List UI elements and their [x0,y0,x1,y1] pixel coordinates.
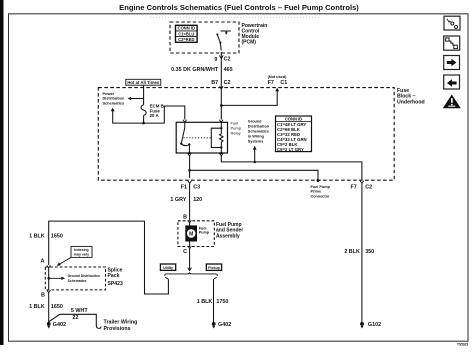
svg-text:Systems: Systems [248,139,264,143]
pickup branch hook [214,277,217,279]
label Fuel Pump Relay [231,120,242,135]
toolbar button: left arrow [444,75,460,89]
svg-text:Underhood: Underhood [397,100,425,106]
Power Distribution Schematics text [103,91,125,106]
label Fuse Block - Underhood [397,88,425,106]
label Fuel Pump Prime Connector [311,185,331,199]
arrow to Power Distribution [131,98,144,100]
svg-text:C3: C3 [193,184,200,190]
svg-text:1650: 1650 [51,304,63,310]
left black sidebar strip [0,0,4,345]
underhood CONN ID table [276,116,312,152]
fuse ECM B 20A [141,105,146,116]
svg-text:C2: C2 [224,57,231,63]
fuel pump motor [185,225,197,241]
wire F7 C2 to G102 [361,183,363,322]
svg-text:Pump: Pump [199,231,210,235]
wire fuse to relay switch [144,106,185,123]
B connector V at splice box bottom [47,290,51,293]
PCM dashed box [170,22,239,53]
splice node [47,277,50,280]
svg-text:may vary: may vary [74,253,89,257]
svg-text:Ground: Ground [248,119,262,123]
B connector V at pump box top [188,220,192,223]
svg-text:20 A: 20 A [150,113,160,118]
svg-text:9: 9 [214,57,217,63]
wire motor to C pin [189,242,191,246]
svg-text:M: M [189,231,193,237]
svg-text:G102: G102 [368,322,381,328]
svg-text:C6=2 LT GRY: C6=2 LT GRY [277,147,304,152]
svg-text:Connector: Connector [311,194,331,198]
PCM label text [242,23,268,46]
svg-text:F7: F7 [351,184,357,190]
svg-text:C2=RED: C2=RED [178,37,194,42]
svg-text:F1: F1 [181,184,187,190]
Utility label box [160,264,175,270]
svg-text:B7: B7 [211,80,218,86]
svg-text:Pack: Pack [108,273,120,279]
PCM output driver symbol [216,31,231,51]
svg-text:350: 350 [365,249,374,255]
svg-text:Provisions: Provisions [104,326,131,332]
svg-text:B: B [183,214,187,220]
svg-text:Hot at All Times: Hot at All Times [127,80,160,85]
up arrow to Schematics [111,108,115,112]
Indexing may vary note box [71,246,92,257]
splice pack dashed box [45,267,105,290]
svg-text:2 BLK: 2 BLK [344,249,360,255]
svg-text:465: 465 [224,67,233,73]
wire F1 C3 to fuel pump [189,183,191,220]
svg-text:22: 22 [72,315,78,321]
svg-text:1750: 1750 [216,299,228,305]
faint dotted underline [150,16,320,18]
relay bottom pin connector Vs [188,153,224,156]
relay bottom edge pin nodes [188,152,190,154]
svg-text:Trailer Wiring: Trailer Wiring [104,320,138,326]
svg-text:(PCM): (PCM) [242,40,257,46]
svg-text:1650: 1650 [51,233,63,239]
utility branch hook [165,277,168,279]
label Fuel Pump (inside box) [199,226,210,234]
svg-text:5 WHT: 5 WHT [71,308,88,314]
svg-text:Engine Controls Schematics (Fu: Engine Controls Schematics (Fuel Control… [119,3,359,12]
label Ground Distribution Schematics in Wiring Systems [248,119,270,143]
svg-text:1 BLK: 1 BLK [29,233,45,239]
svg-text:Schematics: Schematics [248,129,269,133]
svg-text:CONN ID: CONN ID [285,116,302,121]
svg-text:1 GRY: 1 GRY [170,197,186,203]
label Ground Distribution Schematics (in splice box) [68,274,100,283]
wire F7 C1 stub [221,91,277,105]
fuse block underhood dashed box [98,88,394,181]
svg-text:CONN ID: CONN ID [178,26,195,31]
B7 C2 connector V at fuse block top edge [220,86,224,89]
svg-text:(Not used): (Not used) [268,75,288,79]
relay switch [180,122,190,153]
ground distribution arrow [253,146,257,150]
svg-text:120: 120 [193,197,202,203]
relay top pin connector Vs [183,120,223,123]
svg-text:1 BLK: 1 BLK [29,304,45,310]
svg-text:F7: F7 [268,80,274,86]
wire relay coil to F7 C2 [221,156,362,181]
wire into motor [189,223,191,225]
svg-text:Indexing: Indexing [74,248,88,252]
svg-text:1 BLK: 1 BLK [197,299,213,305]
relay internal dashed link [184,137,212,139]
junction node at fuse bottom [142,122,145,125]
svg-text:Distribution: Distribution [248,124,270,128]
PCM CONN ID table [176,25,198,42]
F7 C1 up arrow connector [275,88,279,92]
toolbar button: steps icon [444,36,460,50]
ground G402 left [47,322,51,326]
wire from Hot at All Times to fuse [143,85,145,105]
svg-text:Fuel Pump: Fuel Pump [311,185,331,189]
svg-text:G402: G402 [218,322,231,328]
svg-text:0.35 DK GRN/WHT: 0.35 DK GRN/WHT [171,67,219,73]
wire through splice [48,268,50,290]
toolbar button: right arrow [444,56,460,70]
svg-text:Pickup: Pickup [208,266,221,270]
svg-text:C2: C2 [365,184,372,190]
wire to fuel pump prime connector [190,170,318,180]
C connector V at pump box bottom [188,246,192,249]
svg-text:SP423: SP423 [108,281,123,287]
svg-text:G402: G402 [53,322,66,328]
label Splice Pack SP423 [108,268,123,287]
wire pickup branch to G402 [213,279,215,322]
svg-text:Schematics: Schematics [68,279,87,283]
svg-text:C1=BLU: C1=BLU [178,31,194,36]
Hot at All Times label box [126,79,161,85]
branch wire to up arrow [113,111,144,123]
fuel pump relay box [176,122,227,153]
junction node prime tap [188,169,191,172]
label Fuel Pump and Sender Assembly [216,222,243,240]
split bar [165,272,217,276]
wire utility branch around to left column [49,221,169,294]
svg-text:Schematics: Schematics [103,101,125,106]
wire splice to G402 [48,293,50,323]
junction node PCM wire / F7 C1 stub [220,104,223,107]
PCM pin 9 connector V [219,55,223,58]
trailer wiring branch [49,314,101,328]
svg-text:Assembly: Assembly [216,234,240,240]
svg-text:TS5923: TS5923 [457,343,468,347]
fuel pump assembly dashed box [178,221,214,247]
F1 C3 connector V [188,181,192,184]
relay coil [211,122,223,153]
svg-text:Prime: Prime [311,190,322,194]
arrow at split junction [188,268,192,271]
wire PCM pin9 to relay coil [220,52,222,120]
toolbar button: trace icon [444,16,460,30]
svg-text:A: A [40,259,44,265]
wire C down to split [189,249,191,271]
svg-text:C2: C2 [224,80,231,86]
F7 C2 connector V [360,181,364,184]
arrow from note to splice [60,257,72,264]
svg-text:Relay: Relay [231,130,241,135]
ground G102 [360,322,364,326]
ground G402 right [212,322,216,326]
svg-text:C: C [183,249,187,255]
svg-text:Utility: Utility [163,266,173,270]
svg-text:in Wiring: in Wiring [248,134,265,138]
label Trailer Wiring Provisions [104,320,138,332]
arrow to Ground Distribution text [49,277,62,279]
A connector V at splice box top [47,265,51,268]
wire switch output down [189,156,191,178]
svg-text:B: B [41,292,45,298]
Pickup label box [206,264,221,270]
svg-text:C1: C1 [280,80,287,86]
fuel pump prime connector node [317,179,320,182]
warning triangle icon [443,95,461,109]
svg-text:Ground Distribution: Ground Distribution [68,274,100,278]
